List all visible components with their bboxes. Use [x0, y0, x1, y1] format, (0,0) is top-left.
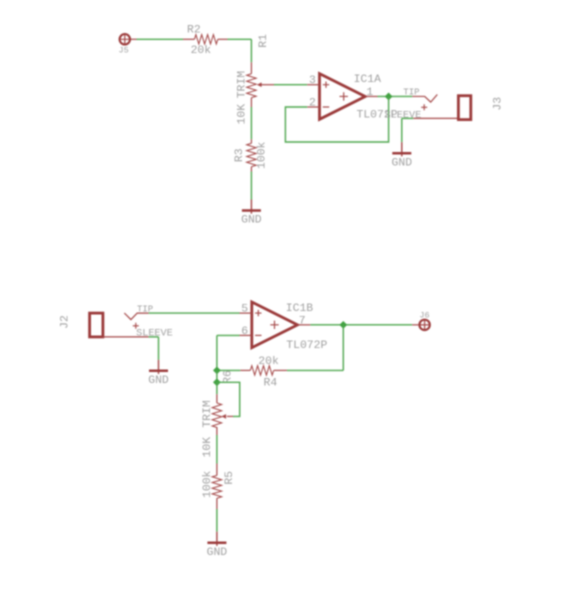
svg-text:20k: 20k	[191, 45, 212, 57]
junction node pin6/R4	[213, 367, 221, 375]
connector pad J5	[118, 34, 130, 56]
wire trimpot to R3	[250, 107, 252, 139]
svg-text:R4: R4	[264, 377, 278, 389]
svg-text:GND: GND	[392, 157, 413, 169]
junction node wiper	[213, 378, 221, 386]
jack J2 TIP pin	[124, 304, 153, 319]
wire R5 to ground	[216, 509, 218, 532]
svg-text:TIP: TIP	[403, 88, 419, 98]
svg-text:GND: GND	[207, 547, 228, 559]
svg-text:TRIM: TRIM	[236, 71, 248, 99]
ground	[207, 532, 228, 559]
svg-text:J6: J6	[419, 310, 429, 320]
jack J3 body	[458, 96, 504, 120]
feedback wire to R4	[287, 325, 343, 371]
wire junction to junction	[216, 370, 218, 382]
svg-text:TRIM: TRIM	[202, 400, 214, 428]
svg-text:1: 1	[366, 87, 373, 99]
svg-text:6: 6	[241, 326, 248, 338]
ground	[392, 142, 413, 169]
svg-text:IC1B: IC1B	[286, 303, 314, 315]
wire TIP to pin 5	[149, 312, 240, 314]
svg-text:TL072P: TL072P	[286, 340, 327, 352]
wire wiper loop	[217, 382, 240, 416]
wire R4 to junction	[217, 369, 240, 371]
trimpot R6 10K	[202, 382, 233, 457]
ground	[148, 360, 169, 387]
junction output IC1B	[339, 321, 347, 329]
svg-text:GND: GND	[241, 215, 262, 227]
svg-text:SLEEVE: SLEEVE	[136, 328, 173, 339]
connector pad J6	[412, 310, 430, 330]
junction output node	[385, 93, 393, 101]
svg-text:J5: J5	[118, 46, 128, 56]
wire trimpot to R5	[216, 435, 218, 464]
svg-text:7: 7	[299, 315, 306, 327]
svg-text:SLEEVE: SLEEVE	[385, 111, 422, 122]
svg-text:5: 5	[241, 304, 248, 316]
svg-text:J3: J3	[493, 97, 505, 111]
svg-text:3: 3	[309, 75, 316, 87]
svg-text:10K: 10K	[202, 437, 214, 458]
wire pin 7 to J6	[310, 324, 412, 326]
wire pin 6 down	[217, 335, 240, 370]
resistor R3 100k	[234, 139, 268, 171]
jack J2 sleeve pin	[103, 323, 173, 340]
wire J5 to R2	[131, 38, 183, 40]
wire sleeve J2 to ground	[149, 337, 159, 360]
trimpot R1 10K	[236, 62, 274, 124]
ground	[241, 200, 262, 227]
op-amp IC1B TL072P	[240, 302, 328, 352]
resistor R2 20k	[183, 25, 228, 58]
svg-text:R5: R5	[224, 471, 236, 485]
svg-text:20k: 20k	[258, 356, 279, 368]
svg-text:R3: R3	[234, 148, 246, 162]
svg-text:100k: 100k	[257, 141, 269, 169]
wire wiper to pin 3	[274, 84, 307, 86]
wire output pin1 to TIP	[378, 95, 413, 97]
resistor R4 20k	[240, 356, 287, 389]
wire R2 to corner node	[228, 39, 252, 62]
svg-text:10K: 10K	[236, 104, 248, 125]
svg-text:2: 2	[309, 98, 316, 110]
svg-text:R2: R2	[187, 25, 201, 37]
svg-text:R1: R1	[258, 34, 270, 48]
svg-text:GND: GND	[148, 375, 169, 387]
svg-text:J2: J2	[60, 315, 72, 329]
resistor R5 100k	[202, 464, 236, 510]
jack J3 TIP pin	[403, 88, 437, 102]
wire sleeve to ground	[402, 118, 413, 142]
wire R3 to ground	[250, 172, 252, 200]
svg-text:IC1A: IC1A	[354, 74, 382, 86]
jack J3 sleeve pin	[385, 104, 459, 121]
jack J2 body	[60, 313, 103, 337]
feedback wire output to pin 2	[285, 96, 388, 142]
op-amp IC1A TL072P	[307, 74, 397, 122]
svg-text:100k: 100k	[202, 470, 214, 498]
